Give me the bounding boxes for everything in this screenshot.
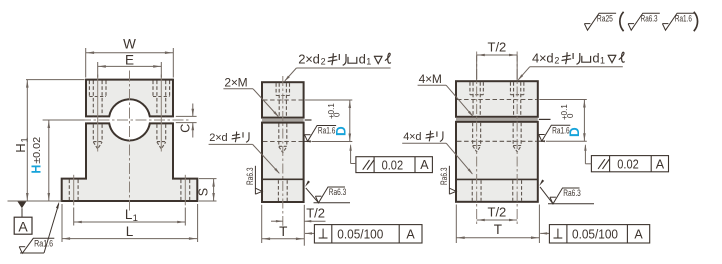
svg-text:2: 2 (321, 57, 326, 67)
side view A: bore hidden lines and center line (263, 100, 312, 142)
svg-text:4×d: 4×d (532, 51, 553, 66)
side view A: cap counterbored hole (hidden) (276, 83, 289, 118)
svg-text:0.05/100: 0.05/100 (337, 228, 383, 242)
svg-text:4×d: 4×d (403, 131, 421, 143)
front view: cap counterbored holes (hidden lines) (89, 75, 169, 117)
svg-text:A: A (634, 227, 643, 241)
front view: tapped holes in base (hidden) with drill points (93, 116, 165, 151)
svg-text:H: H (13, 143, 28, 152)
svg-text:T/2: T/2 (488, 39, 507, 54)
svg-text:A: A (406, 227, 415, 241)
svg-text:Ra1.6: Ra1.6 (318, 126, 336, 136)
svg-text:A: A (656, 157, 665, 171)
svg-text:T: T (279, 224, 287, 239)
side view B: slit band (456, 118, 538, 121)
svg-text:2×M: 2×M (224, 76, 247, 90)
svg-text:Ra6.3: Ra6.3 (641, 13, 658, 23)
dimension H1 (13, 80, 84, 201)
side view B: cap block (456, 81, 538, 117)
dimension H ±0.02 (blue H) (29, 120, 84, 201)
front view: vertical center line (129, 71, 131, 211)
dimension T/2, side view A (271, 205, 326, 246)
svg-text:A: A (18, 219, 28, 235)
dimension L (62, 204, 198, 242)
svg-text:Ra1.6: Ra1.6 (552, 126, 570, 136)
side view A: vertical center line (282, 76, 284, 226)
dimension S (196, 179, 216, 201)
dimension T/2 bottom, side view B (477, 204, 518, 221)
perpendicularity FCF 0.05/100 A, side view A (305, 225, 422, 243)
surface roughness Ra1.6 on bore, side view B (539, 125, 571, 142)
callout 2×d-kiri mounting holes (209, 132, 280, 175)
svg-text:0.02: 0.02 (382, 158, 404, 172)
callout 4×d2-kiri counterbore d1 depth l (518, 51, 625, 81)
svg-text:Ra6.3: Ra6.3 (563, 188, 581, 198)
parallelism FCF 0.02 A, side view B (584, 144, 668, 172)
svg-text:L: L (126, 224, 134, 239)
svg-text:0: 0 (333, 112, 342, 117)
dimension T/2 top, side view B (477, 39, 518, 80)
svg-text:E: E (125, 53, 134, 68)
svg-text:1: 1 (20, 137, 31, 142)
dimension E (98, 53, 162, 78)
side view B: bore hidden lines and center line (457, 100, 551, 142)
callout 4×d-kiri mounting holes (402, 131, 473, 175)
side view B: tapped holes (hidden) with drill points (473, 123, 522, 152)
svg-text:±0.02: ±0.02 (32, 136, 43, 163)
datum feature A on bottom face (8, 201, 62, 235)
svg-text:Ra6.3: Ra6.3 (329, 187, 347, 197)
surface roughness Ra6.3 right face (leadered), side view A (305, 181, 350, 203)
callout 4×M tapped holes (418, 72, 474, 117)
svg-text:1: 1 (600, 56, 605, 66)
svg-text:Ra6.3: Ra6.3 (245, 168, 255, 186)
svg-text:2: 2 (554, 56, 559, 66)
perpendicularity FCF 0.05/100 A, side view B (540, 225, 650, 243)
front view: cap block outline (86, 80, 173, 117)
side view A: base block (262, 123, 304, 202)
general surface roughness note Ra25 (Ra6.3 Ra1.6) (584, 12, 697, 31)
front view: base block outline (62, 123, 198, 201)
svg-text:1: 1 (366, 57, 371, 67)
svg-text:C: C (179, 124, 193, 133)
front view: horizontal bore center line (43, 119, 191, 121)
svg-text:Ra1.6: Ra1.6 (34, 239, 53, 249)
surface roughness Ra1.6 on bottom face (leadered) (19, 202, 59, 254)
side view B: cap counterbored holes (hidden) (470, 82, 524, 117)
dimension D with tolerance (blue D), side view B (539, 100, 587, 142)
svg-text:W: W (123, 36, 136, 51)
svg-text:1: 1 (133, 213, 138, 224)
surface roughness Ra6.3 left face, side view B (439, 166, 456, 194)
svg-text:Ra1.6: Ra1.6 (675, 13, 692, 23)
dimension W (86, 36, 174, 77)
surface roughness Ra1.6 on bore, side view A (304, 126, 336, 143)
svg-text:0.02: 0.02 (617, 158, 639, 172)
svg-text:2×d: 2×d (209, 132, 227, 144)
side view B: base block (456, 122, 538, 202)
svg-text:d: d (592, 51, 599, 66)
dimension L1 (74, 207, 186, 226)
svg-text:H: H (29, 165, 43, 174)
surface roughness Ra6.3 left face, side view A (245, 166, 262, 194)
side view A: slit band (262, 119, 304, 122)
side view A: tapped hole (hidden) with drill point (279, 124, 287, 153)
svg-text:T/2: T/2 (306, 206, 325, 221)
svg-text:0: 0 (566, 113, 575, 118)
callout 2×d2-kiri counterbore d1 depth l (284, 52, 391, 82)
front view: flange mounting holes (hidden) (69, 175, 189, 206)
parallelism FCF 0.02 A, side view A (349, 144, 432, 173)
dimension T, side view A (262, 205, 305, 243)
svg-text:D: D (334, 126, 349, 136)
dimension C (176, 104, 197, 138)
svg-text:2×d: 2×d (298, 52, 319, 67)
svg-text:T: T (494, 222, 502, 237)
callout 2×M tapped holes (223, 76, 279, 118)
svg-text:T/2: T/2 (488, 204, 507, 219)
side view A: flange mounting hole (hidden) (278, 180, 287, 201)
svg-text:d: d (359, 52, 366, 67)
svg-text:Ra25: Ra25 (597, 13, 613, 23)
svg-text:Ra6.3: Ra6.3 (439, 168, 449, 186)
dimension T, side view B (456, 205, 539, 244)
side view A: cap block (262, 82, 304, 117)
side view B: hole center lines (477, 52, 518, 226)
surface roughness Ra6.3 right face (leadered), side view B (539, 180, 594, 204)
svg-text:0.05/100: 0.05/100 (572, 228, 618, 242)
dimension D with tolerance (blue D), side view A (305, 100, 352, 142)
svg-text:S: S (196, 188, 210, 196)
svg-text:A: A (420, 158, 429, 172)
svg-text:4×M: 4×M (419, 72, 442, 86)
side view B: flange mounting holes (hidden) (472, 180, 521, 201)
